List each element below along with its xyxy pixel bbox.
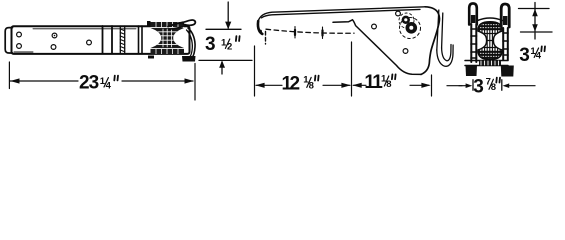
hatched strip: [120, 26, 124, 53]
dim 3 1/2: text: [205, 34, 232, 55]
hole A: [17, 32, 22, 37]
dashed centerline: [266, 29, 354, 33]
dim 11 1/8: right arrowhead: [421, 83, 430, 88]
dim 3 1/4: bottom tick: [521, 31, 553, 33]
divider line 2: [111, 26, 113, 53]
arm top edge (double band): [258, 7, 425, 21]
dim 12 1/8: dimension line: [256, 84, 350, 86]
roller hidden circle (dashed): [400, 18, 421, 39]
dim 3 1/4: top tick: [519, 8, 550, 10]
dim 23 1/4: right arrowhead: [185, 78, 194, 83]
left strap body: [471, 24, 476, 62]
svg-text:2: 2: [290, 73, 301, 94]
hole D: [51, 45, 56, 50]
svg-text:3: 3: [205, 34, 216, 55]
dim 3 1/2: bottom arrow: [221, 62, 223, 74]
tip hidden edge (dashed): [265, 32, 267, 45]
right strap body: [503, 28, 508, 60]
dim 11 1/8: dimension line: [353, 84, 429, 86]
centerline tick 2: [322, 27, 324, 40]
dim 3 7/8: leader right: [509, 85, 535, 87]
dim 23 1/4: dimension line: [10, 80, 193, 82]
dim 3 1/4: arrow line: [534, 3, 536, 32]
dim 23 1/4: left extension line: [8, 62, 10, 89]
dim 3 1/2: top arrow: [227, 2, 229, 28]
svg-text:3: 3: [89, 73, 100, 94]
dim 3 7/8: leader left: [447, 85, 462, 87]
bail tip (top view): [168, 20, 195, 26]
svg-text:3: 3: [519, 45, 530, 66]
hole B: [52, 33, 57, 38]
dim 23 1/4: right extension line: [194, 64, 196, 101]
dim 12 1/8: right extension line: [351, 42, 353, 96]
dim 23 1/4: text: [79, 73, 112, 94]
dim 3 1/4: up arrowhead: [532, 9, 538, 16]
plate hole 1: [372, 24, 377, 29]
left foot: [466, 66, 478, 77]
dim 11 1/8: left arrowhead: [352, 83, 361, 88]
right foot: [501, 66, 514, 77]
plate hole 2: [396, 11, 401, 16]
base bar: [465, 61, 508, 66]
dim 3 1/4: down arrowhead: [532, 24, 538, 31]
left strap loop: [469, 3, 477, 24]
plate hole 3: [403, 49, 408, 54]
dim 12 1/8: text: [282, 73, 314, 94]
dim 12 1/8: right arrowhead: [341, 83, 350, 88]
tip curl: [258, 21, 262, 34]
dim 3 7/8: right tick: [501, 80, 503, 90]
gusset plate outline: [333, 20, 421, 75]
bail left arm: [437, 10, 443, 50]
right strap loop: [501, 4, 509, 27]
dim 3 7/8: left tick: [472, 80, 474, 90]
bail pin arc: [478, 18, 503, 21]
svg-text:3: 3: [473, 77, 484, 98]
roller support plate (double line): [139, 26, 143, 53]
pin boss (dark ring): [402, 16, 410, 24]
pin hidden circle (dashed): [399, 13, 414, 28]
axle hub (dark): [406, 22, 418, 34]
bail bottom loop: [437, 45, 453, 66]
bottom edge inner line: [14, 51, 33, 53]
dim 23 1/4: left arrowhead: [10, 78, 19, 83]
dim 11 1/8: right extension line: [431, 75, 433, 96]
dim 3 1/2: top tick line: [206, 28, 241, 30]
support tab above: [147, 21, 151, 26]
dim 3 1/4: text: [519, 45, 542, 66]
top edge inner line: [33, 28, 136, 30]
hole C: [17, 44, 22, 49]
dim 3 7/8: text: [473, 77, 496, 98]
dim 12 1/8: left arrowhead: [255, 83, 264, 88]
channel outline: [12, 26, 190, 54]
dim 11 1/8: text: [364, 72, 391, 93]
dim 12 1/8: left extension line: [254, 46, 256, 96]
curved end cap: [188, 28, 195, 57]
dim 3 1/2: bottom tick line: [199, 59, 252, 61]
left end cap tab: [5, 28, 12, 53]
centerline tick 1: [294, 27, 296, 40]
hole E: [87, 40, 92, 45]
divider line 1: [102, 26, 104, 53]
